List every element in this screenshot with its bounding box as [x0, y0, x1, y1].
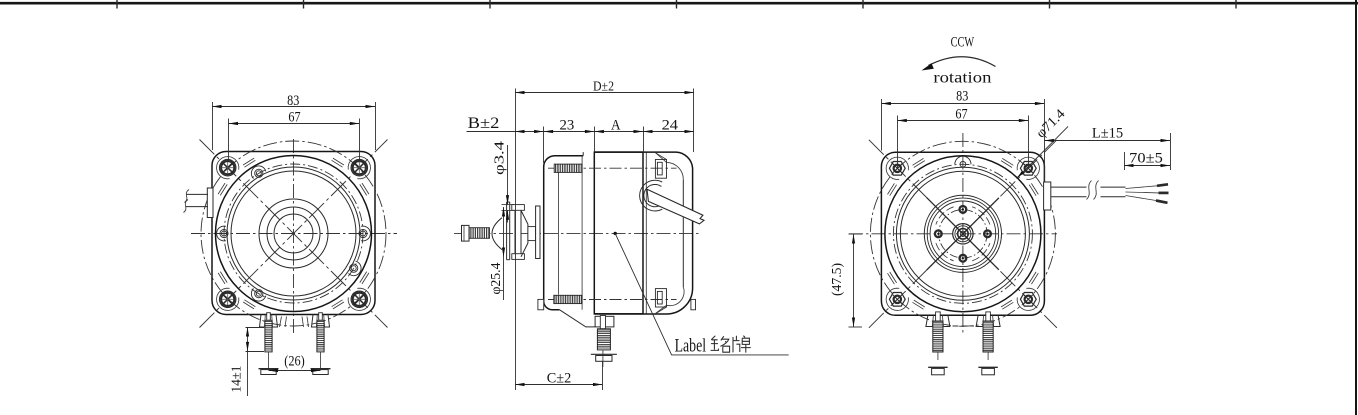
svg-text:B±2: B±2: [468, 115, 500, 132]
side view: mounting bolt shank: [469, 228, 490, 239]
side view: curved spring washer: [492, 218, 502, 250]
dimension 83 (rear view): [881, 99, 883, 151]
rear view: top flange hole with boss: [955, 156, 971, 164]
rear view: cable lines: [1051, 186, 1126, 188]
rear view: shaft center cross: [927, 198, 999, 270]
side view: foot diagonal: [559, 310, 595, 327]
rear view: corner pad chamfer lines: [888, 158, 1039, 309]
rear view: threaded stud at x=988.1: [983, 321, 993, 352]
rear view: stud mount bracket at x=988.1: [976, 315, 1000, 326]
rear view: body step circle r66.5: [896, 167, 1029, 300]
front view: flange hole at 120 deg: [251, 166, 266, 179]
front view: bolt circle dash-dot r92.5: [201, 141, 386, 326]
rear view: body step circle r62.5: [900, 171, 1025, 296]
rear view: diagonal centerline NE-SW: [869, 140, 1057, 328]
rear view: diagonal centerline NW-SE: [869, 140, 1057, 328]
side view: endbell inner wall arcs: [655, 153, 684, 314]
front view: lead wire exit bracket: [207, 188, 213, 218]
sheet border right line: [1355, 0, 1357, 415]
front view: diagonal centerline NE-SW: [200, 140, 388, 328]
side view: stud extension to C dim: [602, 361, 604, 390]
front view: corner screw 3 (phillips head): [217, 288, 239, 310]
front view: extra bottom center structure: [280, 317, 309, 328]
dimension 70±5 (rear view): [1124, 152, 1126, 170]
side view: top through-bolt centerline: [548, 167, 677, 169]
front view: lead wire pair: [186, 193, 208, 195]
sheet border top line: [0, 2, 1358, 5]
label leader dot: [614, 232, 617, 235]
rear view: corner hex screw 2: [1017, 157, 1039, 179]
dimension φ3.4 extension ticks: [502, 204, 514, 206]
side view: bottom through-bolt centerline: [548, 299, 677, 301]
front view: corner screw 2 (phillips head): [348, 157, 370, 179]
front view: hub circle r26.5: [267, 207, 320, 260]
front view: horizontal centerline: [191, 233, 397, 235]
rear view: corner hex screw 4: [1017, 288, 1039, 310]
rear view: foot pad at x=937.9: [928, 366, 947, 368]
front view: flange step circle r62.5: [231, 171, 356, 296]
side view: core-endbell joint line: [645, 152, 647, 314]
side view: right mount tab: [691, 299, 696, 309]
dimension 67 (rear view): [897, 116, 899, 169]
side view: shaft axis centerline: [454, 233, 700, 235]
dimension φ3.4 (side view): [507, 145, 509, 205]
side view: front housing step to core: [582, 152, 584, 156]
front view: stud mount bracket at x=268.5: [260, 315, 278, 328]
dimension φ71.4 leader (rear view): [1017, 127, 1069, 179]
dimension D±2 (side view): [515, 89, 517, 391]
svg-text:83: 83: [287, 93, 299, 109]
rear view: hole pitch circle dash-dot r69.5: [893, 164, 1032, 303]
front view: washer at x=268.5: [259, 368, 279, 370]
svg-text:14±1: 14±1: [230, 366, 245, 393]
front view: flange step circle r66.5: [227, 167, 360, 300]
svg-text:A: A: [611, 118, 621, 134]
rear view: corner hex screw 3: [886, 288, 908, 310]
rear view: hub screw pitch circle: [939, 210, 987, 258]
rear view: hub screws: [960, 206, 967, 213]
front view: washer at x=320.5: [311, 368, 331, 370]
label chinese char pai (牌): [733, 336, 751, 353]
rear view: vertical centerline: [962, 133, 964, 335]
side view: top through-bolt threaded end: [554, 164, 582, 172]
svg-text:φ25.4: φ25.4: [488, 262, 503, 294]
side view: rear top bracket clip: [655, 160, 666, 179]
dimension chain line B±2 / 23 / A / 24 (side view): [467, 131, 695, 133]
rear view: stud mount bracket at x=937.9: [926, 315, 950, 326]
side view: front housing outline: [544, 156, 584, 310]
rear view: stud tip at x=937.9: [936, 312, 941, 321]
side view: bottom nut: [596, 356, 612, 362]
side view: bottom threaded stud: [597, 329, 610, 350]
sheet border zone ticks: [117, 0, 1236, 9]
side view: bottom washer: [591, 353, 617, 355]
front view: stud centerline tail at x=268.5: [268, 352, 270, 369]
rear view: stud tip at x=988.1: [986, 312, 991, 321]
dimension (47.5) (rear view): [849, 233, 863, 235]
side view: rear bottom bracket clip: [655, 289, 666, 307]
side view: stator core rectangle: [594, 152, 643, 314]
front view: vertical centerline: [293, 139, 295, 335]
front view: stud tip at x=268.5: [267, 313, 271, 321]
rear view: square mounting plate outline: [881, 152, 1044, 315]
svg-text:67: 67: [288, 110, 300, 126]
side view: left mount tab: [538, 299, 544, 309]
side view: housing inner wall lines: [558, 172, 560, 294]
side view: bottom foot block: [595, 316, 614, 327]
svg-text:C±2: C±2: [547, 371, 572, 387]
svg-text:67: 67: [955, 107, 967, 123]
svg-text:φ3.4: φ3.4: [491, 141, 506, 175]
rear view: foot pad at x=988.1: [978, 366, 997, 368]
label leader line: [615, 233, 789, 355]
svg-text:24: 24: [662, 118, 679, 134]
side view: mounting flange disc φ25.4: [515, 207, 521, 257]
side view: mounting bolt hex head: [462, 225, 470, 241]
front view: lead wire break symbol: [184, 190, 190, 213]
rotation direction arc arrow: [929, 57, 996, 67]
side view: cable grommet: [640, 180, 663, 211]
front view: threaded stud at x=320.5: [317, 320, 324, 352]
svg-text:D±2: D±2: [593, 80, 614, 95]
dimension 67 (front view): [228, 119, 230, 162]
rear view: cable exit bracket: [1044, 182, 1051, 210]
side view: bottom stud tail: [602, 350, 604, 367]
front view: stud tip at x=320.5: [319, 313, 323, 321]
side view: flange top nub (φ3.4 hole): [512, 205, 525, 211]
rear view: bearing hub ring r35.7: [927, 198, 998, 269]
svg-text:70±5: 70±5: [1129, 151, 1163, 167]
dimension (26) (front view): [269, 370, 321, 372]
front view: stud mount bracket at x=320.5: [312, 315, 330, 328]
front view: motor body outer circle: [216, 156, 372, 312]
front view: flange hole at 240 deg: [251, 288, 266, 301]
front view: hole pitch circle dash-dot r69.5: [224, 164, 363, 303]
front view: shaft boss circle r19.5: [274, 214, 313, 253]
side view: bottom through-bolt threaded end: [554, 295, 582, 303]
side view: shaft: [528, 227, 536, 241]
rear view: bearing hub ring r38.6: [924, 195, 1001, 272]
front view: flange hole at 330 deg: [348, 261, 361, 276]
dimension φ25.4 (side view): [503, 207, 505, 257]
dimension L±15 (rear view): [1170, 133, 1172, 170]
front view: nut at x=268.5: [261, 370, 276, 375]
front view: flange hole at 0 deg: [361, 226, 370, 241]
rear view: bolt circle dash-dot r92.5: [870, 141, 1055, 326]
side view: rear endbell outline: [594, 152, 692, 314]
side view: flange bottom nub: [512, 254, 525, 260]
side view: cable tube exiting: [647, 189, 704, 224]
svg-text:CCW: CCW: [951, 35, 975, 51]
svg-text:rotation: rotation: [933, 70, 991, 87]
side view: shaft hub cone: [521, 210, 528, 256]
rear view: hub vent slot arcs: [972, 207, 990, 225]
rear view: horizontal centerline: [849, 233, 1057, 235]
front view: diagonal centerline NW-SE: [200, 140, 388, 328]
rear view: shaft end circles: [953, 224, 973, 244]
svg-text:Label: Label: [675, 336, 707, 356]
front view: square mounting plate outline: [212, 152, 375, 315]
rear view: stud tail at x=988.1: [987, 352, 989, 360]
side view: bearing boss plate: [536, 206, 540, 259]
dimension C±2 (side view): [515, 384, 603, 386]
front view: corner screw 4 (phillips head): [348, 288, 370, 310]
label chinese char ming (铭): [711, 336, 730, 352]
rear view: stud tail at x=937.9: [937, 352, 939, 360]
rear view: cable break symbol: [1087, 185, 1101, 200]
svg-text:(26): (26): [284, 354, 305, 370]
rear view: corner hex screw 1: [886, 157, 908, 179]
dimension 83 (front view): [212, 102, 214, 150]
front view: nut at x=320.5: [313, 370, 328, 375]
svg-text:23: 23: [560, 118, 575, 134]
svg-text:(47.5): (47.5): [829, 263, 844, 296]
rear view: wire fan 3 leads: [1126, 186, 1158, 189]
rear view: hidden line between mounts: [953, 325, 975, 327]
svg-text:83: 83: [956, 89, 968, 105]
front view: corner pad chamfer lines: [218, 158, 369, 309]
side view: bottom stud tip: [600, 316, 605, 329]
front view: flange hole at 180 deg: [217, 226, 226, 241]
front view: corner screw 1 (phillips head): [217, 157, 239, 179]
front view: threaded stud at x=268.5: [265, 320, 272, 352]
front view: stud centerline tail at x=320.5: [320, 352, 322, 369]
side view: push washer plate: [506, 202, 508, 260]
rear view: threaded stud at x=937.9: [933, 321, 943, 352]
dimension 14±1 (front view): [246, 327, 265, 329]
rear view: motor body outer circle: [885, 156, 1041, 312]
front view: hub circle r34.5: [259, 199, 328, 268]
rear view: bearing hub ring r32.8: [930, 201, 996, 267]
svg-text:L±15: L±15: [1092, 126, 1123, 142]
